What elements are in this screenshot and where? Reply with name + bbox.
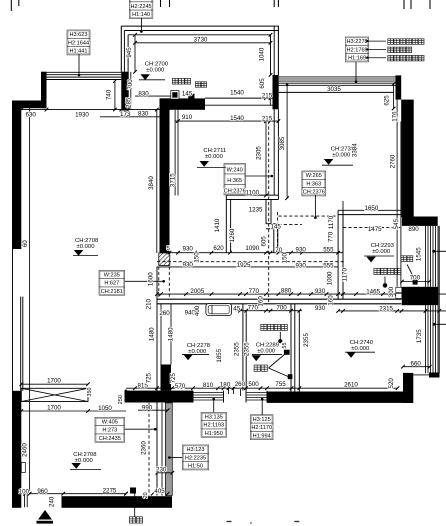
corridor dashed line right (168, 267, 170, 300)
dim 1040 shares inner line (270, 35, 272, 75)
svg-text:2360: 2360 (141, 441, 148, 455)
svg-text:605: 605 (259, 78, 266, 89)
svg-text:630: 630 (26, 112, 37, 119)
text ma-tong-xia-shui bath2 (374, 268, 401, 274)
svg-text:350: 350 (87, 388, 93, 397)
svg-text:±0.000: ±0.000 (257, 349, 276, 355)
svg-text:625: 625 (384, 95, 391, 106)
top boundary second left vertical (123, 31, 125, 72)
wall bottom-right vertical (403, 373, 413, 403)
svg-text:H1:950: H1:950 (205, 431, 223, 437)
wall center vertical (160, 98, 170, 253)
svg-text:CH:2739: CH:2739 (331, 147, 354, 153)
svg-text:1600: 1600 (148, 272, 155, 286)
wall right mid block (402, 287, 439, 305)
svg-text:3715: 3715 (169, 173, 176, 187)
shaft wall left vertical b (230, 200, 232, 253)
svg-text:1050: 1050 (98, 405, 112, 412)
window right marker lower (433, 323, 436, 326)
top boundary outer right vertical (277, 26, 279, 75)
dim ticks bath rows (238, 309, 242, 313)
flue hatched box (159, 253, 170, 265)
wall pier kitchen-left (121, 72, 128, 111)
svg-text:1100: 1100 (246, 190, 260, 197)
wall top-left horizontal (12, 101, 47, 109)
svg-text:45: 45 (233, 306, 240, 313)
svg-text:100: 100 (19, 488, 30, 495)
dim line 1700-1050 row (21, 410, 126, 412)
bath2 top wall line b (338, 214, 401, 216)
door gap ticks corridor band (228, 387, 230, 394)
shaft wall jog horizontal b (266, 228, 274, 230)
svg-text:3840: 3840 (148, 176, 155, 190)
dim line 660 (403, 366, 430, 368)
svg-text:H3:123: H3:123 (186, 447, 204, 453)
svg-text:70: 70 (275, 247, 282, 254)
kitchen bottom wall line a (226, 194, 278, 196)
toilet drain bath1 (278, 339, 282, 343)
dim line row y252.7 (170, 252, 344, 254)
svg-text:1040: 1040 (259, 47, 266, 61)
dim extension dot 3085 (286, 84, 289, 87)
dim ticks corridor band row (133, 386, 137, 390)
lintel panel left (x193-223.5) (193, 392, 224, 394)
svg-text:945: 945 (126, 47, 133, 58)
top boundary inner line (128, 34, 270, 36)
svg-text:960: 960 (37, 488, 48, 495)
svg-text:700: 700 (410, 275, 421, 282)
svg-text:3730: 3730 (194, 36, 208, 43)
leader (125, 280, 164, 282)
svg-text:H3:135: H3:135 (205, 414, 223, 420)
svg-text:400: 400 (194, 305, 201, 316)
svg-text:H:627: H:627 (104, 281, 119, 287)
svg-text:1465: 1465 (366, 289, 380, 296)
svg-text:1000: 1000 (326, 271, 333, 285)
svg-text:830: 830 (138, 111, 149, 118)
dim line corridor band row (126, 387, 299, 389)
window top-right sill line (279, 91, 394, 93)
dim line row y294.1 (157, 293, 446, 295)
svg-text:CH:2376: CH:2376 (224, 189, 246, 195)
svg-text:2460: 2460 (21, 443, 28, 457)
corridor line below wall b (170, 304, 172, 365)
svg-text:173: 173 (120, 111, 131, 118)
svg-text:215: 215 (262, 116, 273, 123)
svg-text:2315: 2315 (379, 306, 393, 313)
text di-lou bath2 (401, 256, 413, 262)
left wall outer face line at opening (12, 249, 14, 391)
corridor dashed line upper (158, 267, 160, 300)
kitchen sink (206, 304, 232, 316)
svg-text:±0.000: ±0.000 (351, 346, 370, 352)
window right marker upper (432, 250, 435, 253)
bath2 left wall line b (342, 210, 344, 299)
label box H3:123 (182, 445, 208, 470)
svg-text:H1:140: H1:140 (132, 12, 150, 18)
svg-text:2355: 2355 (303, 333, 310, 347)
svg-text:910: 910 (182, 114, 193, 121)
leader (213, 399, 215, 412)
svg-text:1170: 1170 (342, 267, 349, 281)
wall corridor band left (125, 391, 194, 403)
svg-text:930: 930 (183, 245, 194, 252)
kitchen top thin wall cap (269, 98, 271, 105)
svg-text:2275: 2275 (103, 487, 117, 494)
corridor dashed 1925 line (157, 261, 345, 263)
text di-lou kitchen (195, 82, 206, 87)
top boundary outer left vertical (120, 26, 122, 72)
svg-text:CH:2278: CH:2278 (187, 343, 211, 349)
label box W:265 (302, 171, 326, 196)
kitchen left face line b (177, 110, 179, 196)
svg-text:160: 160 (327, 295, 334, 306)
bath1 left wall line b (245, 311, 247, 391)
svg-text:H2:1644: H2:1644 (68, 40, 89, 46)
svg-text:930: 930 (183, 261, 194, 268)
wall right horizontal ledge (402, 217, 438, 226)
entry door jamb line b (26, 494, 28, 507)
label box W:405 (95, 417, 125, 442)
window right-side vertical (6 lines) (425, 226, 427, 287)
dim line row top-left y109.6 (13, 109, 160, 111)
text di-lou bath1 (254, 365, 267, 371)
svg-text:176: 176 (392, 111, 399, 122)
svg-text:H:273: H:273 (102, 428, 117, 434)
svg-text:250: 250 (118, 395, 124, 404)
dashed jog horizontal upper (278, 215, 338, 217)
svg-text:545: 545 (393, 218, 400, 229)
svg-text:740: 740 (105, 89, 112, 100)
label box W:240 kitchen (224, 163, 245, 195)
svg-text:±0.000: ±0.000 (205, 154, 224, 160)
leader (125, 428, 156, 430)
svg-text:1700: 1700 (47, 405, 61, 412)
label box H3:125 (250, 415, 273, 440)
extension line right rooms (342, 201, 344, 253)
svg-text:555: 555 (323, 263, 334, 270)
svg-text:520: 520 (388, 378, 395, 389)
dim ticks row y252.7 (168, 251, 172, 255)
wall pier top-right window end (396, 75, 402, 99)
corridor line below wall a (160, 304, 162, 365)
svg-text:3085: 3085 (279, 136, 286, 150)
stair line (161, 403, 163, 496)
svg-text:660: 660 (411, 361, 422, 368)
svg-text:145: 145 (271, 224, 282, 231)
svg-text:20: 20 (143, 492, 149, 498)
svg-text:1540: 1540 (230, 115, 244, 122)
wall center top arm (160, 98, 206, 109)
svg-text:60: 60 (22, 240, 29, 247)
svg-text:890: 890 (408, 226, 419, 233)
svg-text:H1:50: H1:50 (188, 464, 203, 470)
bath2 door dashed 1475 line (343, 226, 402, 228)
dim ticks bottom row (28, 492, 32, 496)
svg-text:620: 620 (213, 245, 224, 252)
svg-text:930: 930 (315, 288, 326, 295)
window X-box bottom-left (21, 388, 88, 401)
svg-text:H2:2245: H2:2245 (131, 4, 152, 10)
svg-text:2355: 2355 (244, 342, 251, 356)
svg-text:±0.000: ±0.000 (332, 153, 351, 159)
left opening line b (22, 297, 24, 391)
svg-text:930: 930 (296, 263, 307, 270)
svg-text:2610: 2610 (344, 381, 358, 388)
svg-text:CH:2181: CH:2181 (101, 289, 123, 295)
shaft wall right vertical a (265, 200, 267, 224)
dim line bottom 960-2275 (25, 493, 126, 495)
dim line 1700 upper (21, 383, 88, 385)
svg-text:H3:2278: H3:2278 (347, 39, 368, 45)
leader (78, 54, 80, 75)
svg-text:700: 700 (276, 304, 287, 311)
svg-text:230: 230 (156, 466, 167, 473)
dim line 2305 vertical (265, 121, 267, 195)
kitchen top thin wall line b (205, 104, 273, 106)
corridor right line bottom (298, 311, 300, 396)
kitchen bottom wall line b (226, 199, 278, 201)
dashed jog vertical (276, 212, 278, 253)
dashed jog horizontal lower (278, 223, 302, 225)
dim ticks kitchen row (176, 119, 180, 123)
svg-text:1735: 1735 (416, 329, 423, 343)
shaft wall jog horizontal a (266, 223, 278, 225)
svg-text:H2:1170: H2:1170 (251, 425, 272, 431)
svg-text:770: 770 (328, 231, 335, 242)
lintel panel right (x246-267) (246, 392, 267, 394)
svg-text:725: 725 (145, 372, 152, 383)
svg-text:2355: 2355 (234, 342, 241, 356)
svg-text:260: 260 (159, 310, 170, 317)
wall corridor band right (267, 392, 412, 403)
svg-text:830: 830 (138, 90, 149, 97)
shaft wall lower vertical a (273, 229, 275, 253)
svg-text:H3:125: H3:125 (253, 417, 271, 423)
svg-text:1650: 1650 (365, 205, 379, 212)
sewer pipe dashed vertical (268, 121, 270, 302)
svg-text:W:405: W:405 (102, 419, 118, 425)
svg-text:H2:1769: H2:1769 (347, 47, 368, 53)
shaft wall right vertical b (270, 200, 272, 224)
dim line kitchen row y121 (175, 120, 278, 122)
dim line row y116.8 (100, 116, 160, 118)
svg-text:145: 145 (182, 91, 193, 98)
svg-text:CH:2293: CH:2293 (371, 243, 395, 249)
svg-text:500: 500 (248, 381, 259, 388)
svg-text:±0.000: ±0.000 (372, 249, 391, 255)
svg-text:W:235: W:235 (104, 272, 120, 278)
drain square bath2 (413, 280, 418, 285)
dim line 945 vertical (134, 35, 136, 72)
wall bottom entry (62, 496, 173, 508)
svg-text:1540: 1540 (230, 90, 244, 97)
dim ticks row y109.6 (20, 108, 24, 112)
svg-text:W:265: W:265 (306, 173, 322, 179)
window top-right (5 lines) (279, 76, 396, 78)
svg-text:930: 930 (296, 247, 307, 254)
top boundary second line (124, 30, 278, 32)
dim line 3730 (135, 42, 271, 44)
wall left lower (12, 391, 21, 508)
left opening line a (20, 297, 22, 391)
bath1 right wall line a (290, 304, 292, 396)
svg-text:160: 160 (258, 296, 265, 307)
label box window heights top-right (346, 37, 369, 62)
svg-text:285: 285 (126, 97, 133, 108)
bath2 left wall line a (337, 210, 339, 299)
svg-text:3384: 3384 (352, 143, 359, 157)
svg-text:880: 880 (281, 288, 292, 295)
svg-text:1410: 1410 (214, 218, 221, 232)
wall stub top-left window end (41, 72, 47, 109)
svg-text:2305: 2305 (256, 146, 263, 160)
dim line 230 (157, 472, 172, 474)
entry arrow (38, 510, 52, 520)
svg-text:260: 260 (235, 381, 246, 388)
svg-text:5: 5 (167, 246, 170, 252)
leader di-lou bath2 (407, 265, 412, 276)
svg-text:755: 755 (275, 381, 286, 388)
toilet drain bath2 (383, 283, 388, 288)
bath1 right wall line b (294, 304, 296, 396)
wall cap right window bottom (429, 373, 440, 378)
drain squares kitchen (pai-wu-guan) (171, 91, 179, 100)
svg-text:1855: 1855 (216, 348, 223, 362)
svg-text:CH:2700: CH:2700 (145, 62, 169, 68)
svg-text:3035: 3035 (327, 86, 341, 93)
bedroom2 right face line b (400, 122, 402, 287)
svg-text:H1:169: H1:169 (348, 56, 366, 62)
svg-text:H3:623: H3:623 (69, 32, 87, 38)
label box W:235 (99, 270, 125, 295)
leader (261, 399, 263, 415)
svg-text:555: 555 (323, 247, 334, 254)
svg-text:H3:96: H3:96 (134, 0, 149, 2)
shaft wall left vertical a (225, 195, 227, 253)
door leaf rect left wall (21, 462, 25, 472)
line below 660 (413, 374, 429, 376)
svg-text:2005: 2005 (190, 288, 204, 295)
long interior wall line b (157, 303, 402, 305)
dim line 830 upper (135, 95, 172, 97)
svg-text:770: 770 (249, 288, 260, 295)
svg-text:180: 180 (220, 382, 231, 389)
svg-text:±0.000: ±0.000 (146, 68, 165, 74)
door jamb box a right bath (396, 287, 402, 292)
leader (169, 457, 182, 459)
svg-text:±0.000: ±0.000 (77, 244, 96, 250)
svg-text:210: 210 (146, 298, 153, 309)
long interior wall line a (157, 298, 402, 300)
svg-text:930: 930 (315, 305, 326, 312)
wall left upper (12, 101, 21, 250)
wall right upper vertical (401, 100, 414, 217)
floor drain bottom corridor (130, 488, 136, 494)
door jamb box b right bath (396, 293, 402, 298)
dim line 625 vertical (393, 84, 395, 109)
text di-lou bottom (129, 517, 142, 523)
svg-text:55: 55 (282, 343, 288, 349)
leader (245, 175, 271, 177)
dim line right row y310.9 (338, 310, 446, 312)
leaders to window height captions (366, 40, 368, 42)
dim line 2610 (299, 387, 397, 389)
svg-text:W:240: W:240 (227, 168, 243, 174)
dim line 700 bath2 (402, 281, 429, 283)
kitchen right wall line a (273, 109, 275, 195)
svg-text:CH:2740: CH:2740 (350, 340, 374, 346)
dim line bath1 row y310.7 (235, 310, 302, 312)
svg-text:810: 810 (203, 382, 214, 389)
leader (314, 195, 316, 218)
svg-text:CH:2289: CH:2289 (256, 342, 279, 348)
label box top-center (cut) (129, 0, 153, 18)
svg-text:1090: 1090 (245, 245, 259, 252)
left inner finish line (29, 108, 31, 491)
top boundary second right vertical (273, 26, 275, 75)
svg-text:240: 240 (48, 496, 55, 507)
window top-left (4 lines) (47, 71, 122, 73)
leader (355, 62, 357, 82)
stair dashed line (148, 403, 150, 496)
svg-text:1480: 1480 (168, 327, 175, 341)
caption chuang-hu-li-di-gao-du (388, 55, 424, 61)
svg-text:150: 150 (193, 252, 200, 263)
caption chuang-hu-li-ding-gao-du (388, 39, 424, 45)
svg-text:1235: 1235 (249, 206, 263, 213)
finish line left of center wall (156, 110, 158, 253)
svg-text:990: 990 (142, 405, 153, 412)
dim ticks row y294.1 (155, 292, 159, 296)
stray bottom marks (227, 521, 232, 523)
bath1 left wall line a (242, 304, 244, 391)
top boundary outer line (121, 25, 278, 27)
shaft wall lower vertical b (277, 224, 279, 253)
svg-text:1545: 1545 (415, 247, 422, 261)
svg-text:H:363: H:363 (306, 181, 321, 187)
label box H3:623 top-left (67, 30, 90, 55)
svg-text:605: 605 (261, 236, 268, 247)
svg-text:150: 150 (282, 252, 289, 263)
corridor lower line (157, 266, 338, 268)
top edge dimension stubs (10, 0, 12, 11)
window right outer face line (438, 226, 440, 373)
svg-text:700: 700 (127, 79, 134, 90)
svg-text:CH:2708: CH:2708 (75, 238, 99, 244)
entry door jamb line a (24, 494, 26, 507)
svg-text:1170: 1170 (328, 215, 335, 229)
svg-text:H1:994: H1:994 (253, 434, 271, 440)
svg-text:300: 300 (388, 286, 395, 297)
top boundary inner right vertical (270, 35, 272, 75)
svg-text:CH:2711: CH:2711 (203, 148, 226, 154)
svg-text:1930: 1930 (75, 112, 89, 119)
svg-text:1925: 1925 (237, 262, 251, 269)
dim 2360 vertical none (152, 410, 154, 494)
kitchen left face line (174, 110, 176, 196)
svg-text:1260: 1260 (229, 228, 236, 242)
label box H3:135 (201, 412, 226, 437)
kitchen top thin wall line a (205, 97, 273, 99)
dim line 990 (138, 409, 168, 411)
drain squares bath1 + leaders (284, 350, 290, 355)
dim line 700-285 vertical (130, 72, 132, 110)
svg-text:1700: 1700 (47, 378, 61, 385)
svg-text:725: 725 (170, 372, 177, 383)
text ma-tong-xia-shui bath1 (261, 324, 288, 330)
wall pier kitchen-right (273, 75, 279, 109)
